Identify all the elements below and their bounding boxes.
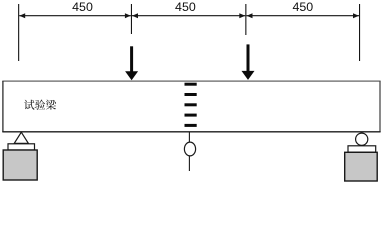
load arrow P1 (left, pointing down onto beam)	[125, 46, 138, 80]
dimension extension line left (tick 1)	[18, 4, 19, 61]
dimension extension line 2 (above first load point)	[131, 4, 132, 34]
svg-text:450: 450	[175, 0, 196, 14]
arrowhead right of span 3	[353, 13, 359, 18]
dimension extension line right (tick 4)	[359, 4, 360, 61]
crack gauge dashes at midspan (5 dashes)	[185, 83, 197, 127]
midspan dial gauge body (ellipse)	[184, 142, 195, 156]
left pin support triangle	[14, 132, 28, 143]
beam label: 试验梁	[24, 100, 56, 110]
arrowhead right of span 1	[125, 13, 131, 18]
left support block (concrete pier)	[3, 150, 37, 180]
dimension line span 2	[132, 15, 245, 17]
arrowhead left of span 1	[19, 13, 25, 18]
right support block (concrete pier)	[345, 152, 378, 181]
dimension line span 3	[247, 15, 360, 17]
dimension line span 1	[19, 15, 131, 17]
midspan dial gauge stem (upper)	[188, 132, 190, 143]
right roller support circle	[356, 133, 368, 145]
midspan dial gauge stem (lower)	[188, 156, 190, 171]
svg-text:450: 450	[292, 0, 313, 14]
load arrow P2 (right, pointing down onto beam)	[242, 44, 255, 80]
arrowhead left of span 2	[132, 13, 138, 18]
beam rectangle	[2, 81, 380, 132]
arrowhead left of span 3	[247, 13, 253, 18]
left support plate	[8, 144, 35, 150]
arrowhead right of span 2	[239, 13, 245, 18]
svg-text:450: 450	[72, 0, 93, 14]
right support plate	[348, 146, 376, 152]
dimension extension line 3 (above second load point)	[245, 4, 246, 35]
